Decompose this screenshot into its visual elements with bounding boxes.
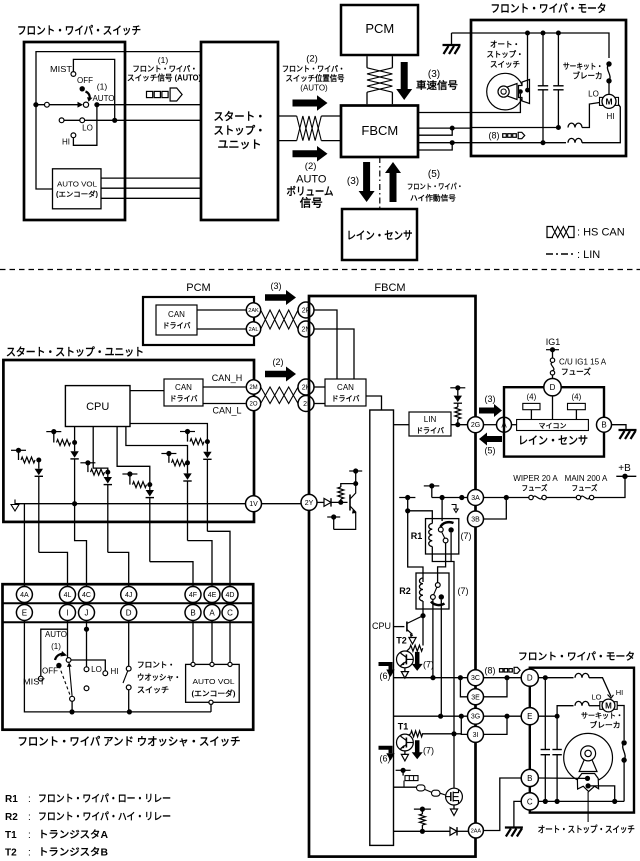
mosfet Q bbox=[446, 788, 463, 805]
cap wire 1b bbox=[544, 678, 546, 750]
svg-text:(8): (8) bbox=[489, 131, 500, 141]
R2 feed dot bbox=[405, 508, 410, 513]
svg-text:ドライバ: ドライバ bbox=[163, 321, 191, 330]
conn 4F bbox=[185, 587, 201, 603]
net2 tap bbox=[46, 431, 61, 433]
base dot 2Y bbox=[338, 500, 343, 505]
breaker blade bbox=[607, 64, 610, 81]
wire 3G line bbox=[394, 715, 468, 717]
(3) rain arrow down bbox=[359, 162, 375, 202]
wire cpu-gate bbox=[394, 786, 417, 788]
svg-text:WIPER 20 A: WIPER 20 A bbox=[513, 474, 558, 483]
wire MIST b bbox=[41, 629, 68, 676]
OFF dot b bbox=[56, 663, 61, 668]
gate element box bbox=[405, 776, 418, 781]
wire PCM-FBCM pair bbox=[366, 56, 368, 68]
wire encoder out3 bbox=[101, 197, 201, 199]
svg-text:LO: LO bbox=[91, 665, 102, 674]
wire 3E right link bbox=[484, 678, 508, 697]
svg-text::: : bbox=[28, 848, 31, 859]
wire auto stop common bbox=[527, 33, 529, 89]
conn A row2 bbox=[204, 605, 220, 621]
svg-text::: : bbox=[28, 812, 31, 823]
svg-text:MIST: MIST bbox=[50, 65, 72, 74]
twisted pair X vertical bbox=[367, 68, 392, 92]
3G dots bbox=[438, 714, 443, 719]
(3) vehicle speed arrow bbox=[396, 62, 412, 100]
svg-text:(3): (3) bbox=[271, 281, 282, 291]
wire can-cpu bbox=[366, 396, 382, 410]
conn D rain bbox=[544, 379, 561, 396]
wire HI to AUTO bbox=[73, 105, 97, 146]
start stop unit box bbox=[201, 42, 278, 220]
D line dot bbox=[543, 675, 548, 680]
(2) volume signal arrow bbox=[293, 146, 328, 162]
net3 diode bbox=[107, 472, 109, 477]
net5 resistor bbox=[168, 454, 170, 463]
svg-text:E: E bbox=[22, 608, 27, 617]
svg-text:オート・ストップ・スイッチ: オート・ストップ・スイッチ bbox=[538, 824, 635, 835]
svg-text:4J: 4J bbox=[125, 592, 132, 599]
svg-text:ドライバ: ドライバ bbox=[416, 426, 444, 435]
(7) arrow T2 bbox=[412, 652, 423, 671]
gate capsule 1 bbox=[417, 785, 426, 791]
R2 coil bbox=[419, 578, 423, 601]
wire CPU-T2 base bbox=[394, 626, 405, 628]
wire R1 coil out bbox=[432, 547, 454, 734]
wire T1 emitter bbox=[404, 751, 406, 755]
LIN driver box bbox=[409, 412, 451, 436]
svg-text:スタート・ストップ・ユニット: スタート・ストップ・ユニット bbox=[6, 345, 144, 359]
wire 2P in bbox=[314, 310, 337, 379]
svg-text:サーキット・: サーキット・ bbox=[581, 711, 623, 720]
capacitor 1b bbox=[541, 749, 550, 751]
wire 2G-A bbox=[484, 424, 497, 426]
net4 diode bbox=[149, 485, 151, 490]
net5 wire cpu bbox=[126, 427, 188, 463]
svg-text:(7): (7) bbox=[458, 586, 469, 596]
wire C col b bbox=[229, 621, 231, 663]
svg-text:2Y: 2Y bbox=[305, 500, 314, 507]
svg-text:2M: 2M bbox=[249, 385, 257, 391]
wire A-micom bbox=[512, 424, 517, 426]
wire 3B up bbox=[484, 498, 507, 520]
relay R2 box bbox=[416, 573, 449, 609]
2G line dot bbox=[455, 422, 460, 427]
+B bar bbox=[616, 475, 636, 477]
tap above 3A line bbox=[424, 485, 440, 487]
conn 4E bbox=[204, 587, 220, 603]
(6) arrow T1 bbox=[379, 748, 391, 754]
front wiper motor box bbox=[471, 20, 626, 156]
wire lower pivot down bbox=[71, 701, 73, 712]
wire to 4L bbox=[39, 552, 68, 586]
transistor T2 bbox=[397, 651, 414, 668]
junction dot B bbox=[112, 118, 117, 123]
svg-text:(8): (8) bbox=[485, 666, 496, 676]
wiper arrowhead bbox=[78, 102, 84, 108]
maikon box bbox=[517, 420, 589, 431]
wire 3I link bbox=[461, 716, 467, 734]
svg-text:ドライバ: ドライバ bbox=[170, 394, 198, 403]
R1 contact a bbox=[438, 527, 443, 532]
svg-text:C: C bbox=[527, 797, 533, 806]
R2 contact dot bbox=[439, 594, 444, 599]
svg-text:スイッチ位置信号: スイッチ位置信号 bbox=[286, 73, 345, 83]
switch outer box bbox=[3, 584, 254, 730]
(4) box 2 bbox=[568, 403, 586, 409]
svg-text:(エンコーダ): (エンコーダ) bbox=[192, 688, 237, 698]
breaker dots bbox=[606, 61, 611, 66]
conn B motor bbox=[521, 769, 538, 786]
wire 2N in bbox=[314, 329, 354, 379]
diode 2Y bbox=[324, 498, 331, 506]
wire R2 coil feed bbox=[408, 498, 423, 583]
svg-text:4A: 4A bbox=[20, 592, 29, 599]
conn 3B bbox=[468, 511, 484, 527]
wire IG1 bbox=[546, 349, 559, 351]
wire cam out bbox=[588, 786, 615, 802]
net5 diode bbox=[187, 463, 189, 474]
(7) arrow T1 bbox=[412, 740, 423, 759]
svg-text:4E: 4E bbox=[208, 592, 217, 599]
wire D line bbox=[538, 677, 573, 679]
contact open bbox=[45, 102, 50, 107]
conn 2AL bbox=[246, 322, 260, 336]
wire to 4F bbox=[150, 562, 193, 587]
svg-text:4D: 4D bbox=[226, 592, 235, 599]
svg-text:B: B bbox=[190, 608, 195, 617]
wire encoder out1 bbox=[101, 177, 201, 179]
wire capsule-mosfet bbox=[440, 793, 445, 795]
cap wire 2b bbox=[556, 716, 558, 749]
wire pivot-HI bbox=[71, 660, 105, 671]
svg-text:E: E bbox=[527, 712, 532, 721]
ground rain bbox=[619, 429, 637, 431]
wire T2 emitter bbox=[404, 668, 406, 672]
IG1 dot bbox=[550, 347, 555, 352]
fuse MAIN bbox=[576, 495, 580, 499]
svg-text:フューズ: フューズ bbox=[572, 483, 598, 493]
wire R1 coil feed bbox=[408, 511, 433, 524]
svg-text:フロント・ワイパ・モータ: フロント・ワイパ・モータ bbox=[491, 2, 607, 15]
wire FBCM out5 merge bbox=[418, 143, 452, 150]
svg-text:レイン・センサ: レイン・センサ bbox=[518, 434, 588, 447]
auto stop inner bbox=[506, 84, 517, 100]
conn 2O bbox=[246, 396, 260, 410]
wire A col b bbox=[211, 621, 213, 663]
digital signal symbol 1 bbox=[147, 91, 153, 97]
svg-text:+B: +B bbox=[618, 463, 631, 474]
CAN driver box pcm bbox=[156, 305, 197, 335]
FBCM box bbox=[341, 106, 418, 158]
junction dot AUTO bbox=[94, 102, 99, 107]
conn 2N bbox=[298, 321, 314, 337]
svg-text:ドライバ: ドライバ bbox=[332, 394, 360, 403]
svg-text:T2: T2 bbox=[396, 636, 407, 646]
cap2 wire bbox=[557, 33, 559, 86]
capacitor 2 bbox=[553, 85, 563, 87]
svg-text:R2: R2 bbox=[5, 812, 18, 823]
svg-text:MAIN 200 A: MAIN 200 A bbox=[565, 474, 608, 483]
svg-text:(4): (4) bbox=[527, 393, 537, 402]
net2 diode bbox=[74, 443, 76, 452]
CAN driver box fbcm bbox=[325, 379, 366, 406]
svg-text:(5): (5) bbox=[485, 446, 496, 456]
wire LO path bbox=[471, 127, 558, 129]
junction dot A bbox=[33, 102, 38, 107]
R1 coil bbox=[429, 524, 433, 547]
rain sensor box b bbox=[504, 387, 604, 456]
wire avol bottom bbox=[210, 704, 212, 712]
wire switch output 2 bbox=[62, 119, 115, 121]
svg-text:R1: R1 bbox=[411, 531, 423, 541]
wire motor top rail bbox=[452, 33, 610, 58]
wire cpu-can bbox=[130, 390, 164, 392]
wire MIST branch bbox=[73, 59, 114, 120]
gate capsule 2 bbox=[432, 790, 441, 796]
contact open L2a bbox=[59, 118, 64, 123]
svg-text:C/U IG1 15 A: C/U IG1 15 A bbox=[559, 358, 607, 367]
wire 2AK bbox=[197, 309, 246, 311]
wire 2AA-B bbox=[483, 778, 522, 831]
svg-text:フロント・ワイパ・ロー・リレー: フロント・ワイパ・ロー・リレー bbox=[38, 793, 171, 805]
R1 hook arrow bbox=[452, 505, 457, 510]
svg-text:CAN: CAN bbox=[168, 310, 185, 319]
wire 3E link bbox=[460, 678, 467, 697]
washer blade bbox=[123, 671, 128, 683]
washer contact bottom bbox=[126, 685, 131, 690]
dashed arm bbox=[59, 666, 71, 697]
svg-text:(2): (2) bbox=[305, 161, 317, 172]
conn B row2 bbox=[185, 605, 201, 621]
motor M top bbox=[600, 97, 605, 105]
svg-text:ウオッシャ・: ウオッシャ・ bbox=[137, 673, 181, 682]
wire R2 no out bbox=[440, 600, 442, 717]
svg-text:HI: HI bbox=[111, 667, 119, 676]
motor M b bbox=[600, 702, 605, 710]
svg-text:HI: HI bbox=[607, 112, 615, 121]
wire 3C-D bbox=[484, 677, 522, 679]
rotary arrow b bbox=[55, 654, 62, 660]
svg-text:AUTO VOL: AUTO VOL bbox=[193, 677, 235, 686]
(5) hi signal arrow up bbox=[385, 162, 401, 202]
svg-text:AUTO: AUTO bbox=[45, 630, 67, 639]
svg-text:LO: LO bbox=[591, 693, 601, 702]
svg-text:(7): (7) bbox=[461, 531, 472, 541]
cam skirt bbox=[577, 774, 598, 792]
wire FBCM down LIN bbox=[379, 157, 381, 209]
conn C motor bbox=[521, 793, 538, 810]
svg-text:スイッチ: スイッチ bbox=[137, 686, 169, 695]
svg-text:フューズ: フューズ bbox=[561, 367, 591, 377]
svg-text:(2): (2) bbox=[306, 54, 318, 65]
R2 arc bbox=[431, 602, 445, 606]
conn 2K bbox=[298, 379, 314, 395]
dot out4 bbox=[450, 140, 455, 145]
wire 2M bbox=[203, 386, 246, 388]
svg-text:4F: 4F bbox=[189, 592, 197, 599]
3A dot bbox=[504, 495, 509, 500]
svg-text:スイッチ: スイッチ bbox=[490, 60, 520, 69]
svg-text:J: J bbox=[85, 608, 89, 617]
conn 1V bbox=[246, 496, 262, 512]
wire gate chain bbox=[403, 781, 405, 788]
T2 out tri bbox=[401, 672, 408, 679]
svg-text:レイン・センサ: レイン・センサ bbox=[347, 229, 413, 242]
R1 arc bbox=[441, 522, 454, 527]
avol terminals bbox=[191, 662, 195, 666]
net2 resistor bbox=[53, 432, 55, 443]
conn 3E bbox=[468, 689, 484, 705]
lower pivot contact bbox=[70, 696, 75, 701]
2AA dot bbox=[420, 829, 425, 834]
CAN driver box ssu bbox=[164, 379, 203, 406]
svg-text:フロント・ワイパ・ハイ・リレー: フロント・ワイパ・ハイ・リレー bbox=[38, 811, 171, 823]
svg-text:1V: 1V bbox=[249, 501, 258, 508]
wire diode-2AA bbox=[458, 830, 469, 832]
HI contact bbox=[71, 133, 76, 138]
svg-text:3C: 3C bbox=[471, 675, 480, 682]
wire 3A line bbox=[432, 497, 468, 499]
wire switch output 1 bbox=[36, 104, 80, 106]
net6 diode bbox=[206, 442, 208, 452]
wire 1V line bbox=[15, 503, 246, 505]
svg-text:AUTO VOL: AUTO VOL bbox=[57, 182, 97, 189]
wire FBCM out3 merge bbox=[418, 128, 452, 135]
wire 2AL bbox=[197, 328, 246, 330]
R1 contact dot bbox=[448, 527, 453, 532]
wire 3I right link bbox=[484, 716, 508, 734]
conn 2M bbox=[246, 380, 260, 394]
svg-text:(1): (1) bbox=[51, 642, 61, 651]
transistor 2Y bbox=[349, 495, 351, 511]
AUTO VOL box b bbox=[186, 664, 240, 702]
wire R1 to R2 bbox=[438, 543, 446, 583]
svg-text:FBCM: FBCM bbox=[374, 282, 405, 294]
wire R2 nc out bbox=[432, 599, 434, 677]
collector rail 2Y bbox=[355, 471, 357, 484]
svg-text:フロント・ワイパ・モータ: フロント・ワイパ・モータ bbox=[518, 651, 635, 663]
svg-text:ブレーカ: ブレーカ bbox=[590, 720, 621, 730]
wire E-LO coil bbox=[538, 715, 557, 717]
wire encoder out2 bbox=[101, 187, 201, 189]
wire R2 coil out bbox=[422, 601, 424, 646]
svg-text:2AL: 2AL bbox=[249, 327, 259, 333]
svg-text:サーキット・: サーキット・ bbox=[563, 62, 603, 71]
svg-text::: : bbox=[28, 794, 31, 805]
svg-text:(3): (3) bbox=[485, 394, 496, 404]
wire B col b bbox=[192, 621, 194, 663]
svg-text:: LIN: : LIN bbox=[577, 249, 600, 261]
washer contact top bbox=[126, 666, 131, 671]
wire E col bbox=[24, 621, 211, 712]
svg-text:(7): (7) bbox=[423, 746, 434, 756]
wire FBCM out2 bbox=[418, 127, 471, 129]
svg-text:CAN_H: CAN_H bbox=[212, 373, 243, 383]
resistor tap bottom bbox=[414, 808, 431, 810]
twisted pair pcm-fbcm bbox=[261, 310, 298, 329]
svg-text:ストップ・: ストップ・ bbox=[487, 49, 524, 59]
connector divider 2 bbox=[3, 621, 254, 623]
pivot contact b bbox=[66, 658, 71, 663]
conn I row2 bbox=[60, 605, 76, 621]
svg-text:D: D bbox=[550, 383, 556, 392]
svg-text:ストップ・: ストップ・ bbox=[214, 123, 266, 137]
C line dots bbox=[543, 799, 548, 804]
svg-text:ハイ作動信号: ハイ作動信号 bbox=[410, 193, 457, 203]
(6) arrow T2 bbox=[379, 664, 391, 670]
wire breaker-C bbox=[623, 760, 625, 801]
auto stop disc bbox=[487, 73, 524, 110]
svg-text:PCM: PCM bbox=[365, 21, 394, 36]
net6 wire cpu bbox=[130, 424, 207, 442]
wire fuse-D bbox=[552, 375, 554, 379]
conn 4J bbox=[121, 587, 137, 603]
net6 resistor bbox=[187, 432, 189, 442]
wire twisted pair top bbox=[278, 115, 297, 117]
wire to 4J bbox=[108, 552, 129, 586]
wire R1 common bbox=[441, 498, 443, 522]
conn 2Y bbox=[301, 494, 317, 510]
svg-text:スタート・: スタート・ bbox=[214, 110, 266, 123]
rotary arrow bbox=[86, 92, 90, 98]
svg-text:トランジスタA: トランジスタA bbox=[38, 829, 108, 841]
wire cpu-lin bbox=[394, 424, 410, 426]
3C dots bbox=[430, 675, 435, 680]
svg-text:2G: 2G bbox=[471, 422, 480, 429]
fuse WIPER bbox=[529, 495, 533, 499]
svg-text:2AK: 2AK bbox=[248, 308, 259, 314]
svg-text:2O: 2O bbox=[249, 402, 257, 408]
svg-text:(7): (7) bbox=[423, 660, 434, 670]
breaker dots b bbox=[621, 740, 626, 745]
horn dot 2 bbox=[525, 88, 530, 93]
conn D motor bbox=[521, 669, 538, 686]
svg-text:3A: 3A bbox=[471, 495, 480, 502]
wire C line bbox=[538, 800, 624, 802]
T1 line dot bbox=[451, 731, 456, 736]
svg-text:CAN: CAN bbox=[337, 383, 354, 392]
svg-text:D: D bbox=[126, 608, 132, 617]
wire mosfet top bbox=[453, 734, 455, 788]
svg-text:(2): (2) bbox=[273, 357, 284, 367]
svg-text:フロント・ワイパ・: フロント・ワイパ・ bbox=[282, 63, 345, 73]
net2 wire cpu bbox=[74, 427, 76, 444]
conn 2I bbox=[298, 396, 314, 412]
AUTO VOL box bbox=[53, 169, 102, 209]
svg-text:(4): (4) bbox=[572, 393, 582, 402]
R1 contact b bbox=[443, 538, 448, 543]
svg-text:I: I bbox=[66, 608, 68, 617]
svg-text:R1: R1 bbox=[5, 794, 18, 805]
svg-text:信号: 信号 bbox=[300, 196, 323, 210]
wire 2AA line bbox=[394, 830, 451, 832]
ground 2AA bbox=[505, 826, 523, 828]
net4 tap bbox=[122, 473, 137, 475]
svg-text:3G: 3G bbox=[471, 714, 480, 721]
svg-text:ユニット: ユニット bbox=[218, 138, 262, 151]
svg-text:フロント・ワイパ・スイッチ: フロント・ワイパ・スイッチ bbox=[17, 24, 141, 37]
svg-text:C: C bbox=[227, 608, 233, 617]
svg-text:CPU: CPU bbox=[86, 401, 109, 413]
svg-text:T2: T2 bbox=[5, 848, 17, 859]
svg-text:HI: HI bbox=[616, 688, 624, 697]
cam dots bbox=[585, 776, 590, 781]
gate link bbox=[425, 790, 432, 793]
svg-text:CAN_L: CAN_L bbox=[212, 406, 241, 416]
svg-text:フロント・ワイパ・: フロント・ワイパ・ bbox=[133, 64, 198, 74]
